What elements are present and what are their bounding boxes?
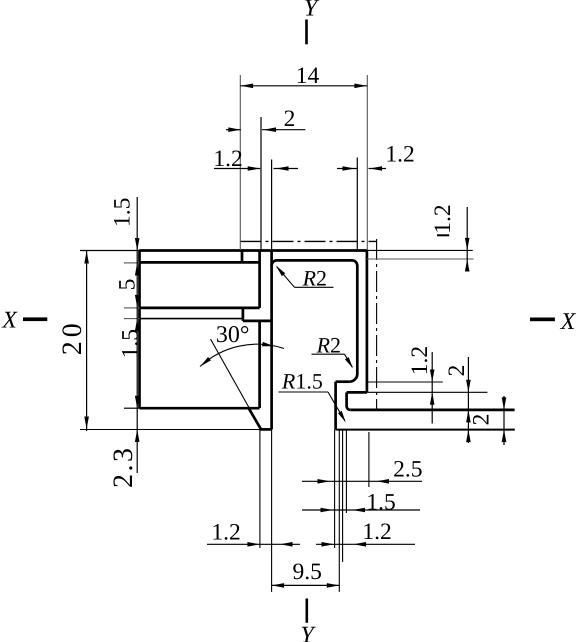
ext line y=250.5 left (top face ext): [80, 250, 140, 252]
radius label R2 lower underline: [312, 353, 345, 355]
axis label X left: [1, 308, 18, 334]
dim label 1.2 bottom-left: [211, 520, 240, 546]
profile: shelf bottom edge left part (y=318.6): [140, 318, 243, 320]
dim 9.5 arrow left-pointing (tip x=271.6): [272, 583, 285, 588]
dim 9.5 line (y=585.4): [272, 584, 340, 586]
dim 1.5 lower arrow up (tip y=318.6): [135, 319, 140, 332]
dim 2 lower line (x=504.0): [503, 396, 505, 445]
profile: right wall inner face (x=357.3) with R2 lower corner: [349, 265, 357, 382]
dim label 1.2 bottom-right: [362, 519, 391, 545]
ext line x=368.9 down (2.5 right ref): [368, 432, 370, 487]
profile: inner top edge / notch bottom (y=262.4): [140, 261, 260, 264]
dim label 5: [115, 279, 141, 291]
profile: bottom edge of hanging wall and foot (y=429.6): [336, 429, 515, 431]
ext line x=271.6 (web right ext up): [271, 160, 273, 251]
profile: cavity top edge with R2 corners (y=260.4): [272, 260, 358, 265]
svg-text:1.2: 1.2: [213, 146, 242, 172]
dim 1.5 top arrow down (tip y=250.5): [135, 238, 140, 251]
dim label 2 lower: [469, 414, 495, 426]
svg-text:R1.5: R1.5: [281, 368, 323, 393]
dim label 1.5 bottom: [366, 489, 395, 515]
svg-text:1.2: 1.2: [362, 519, 391, 545]
svg-text:1.5: 1.5: [110, 198, 136, 227]
dim 1.2 top-right tail: [369, 168, 387, 170]
radius label R2 lower leader: [345, 354, 353, 367]
dim 2 upper arrow up (tip y=409.9): [466, 410, 471, 423]
ext line y=382.0 right (cavity bottom ext): [367, 381, 443, 383]
profile: hanging wall left face (x=335.6): [334, 382, 337, 430]
dim 2.5 arrow right-pointing: [318, 479, 331, 484]
dim 2 line right tail: [262, 129, 305, 131]
dim 1.2 vert arrow down (tip y=250.4): [465, 238, 470, 251]
dim 9.5 arrow right-pointing (tip x=339.3): [327, 583, 340, 588]
svg-text:20: 20: [57, 319, 88, 355]
profile: top-left notch left wall (x=242): [241, 251, 244, 263]
profile: step edge (y=392.4): [347, 391, 367, 394]
radius label R2 top: [302, 266, 327, 291]
dim 2 lower arrow down (tip y=409.9): [502, 397, 507, 410]
dim 1.2 top-left arrow right-pointing: [248, 166, 261, 171]
profile: top face of flange (y=250.5, x139.5-366.9): [140, 249, 367, 252]
dim 2.5 arrow left-pointing: [377, 479, 390, 484]
ext line y=307.9 left gray: [124, 307, 140, 309]
axis tick Y top: [305, 20, 308, 45]
profile: left outer face (x=139.5): [138, 250, 141, 408]
ext line y=392.3 right (step edge ext): [367, 391, 488, 393]
dim label 1.2 vert top-right: [430, 204, 456, 233]
dim 5 arrow up (tip y=263.0): [135, 263, 140, 276]
radius label R1.5 underline: [279, 391, 329, 393]
ext line x=339.3 down (slot left ext / 9.5 right ref): [338, 430, 340, 592]
svg-text:1.5: 1.5: [366, 489, 395, 515]
dim 1.2 top-left line: [214, 168, 260, 170]
svg-text:X: X: [1, 308, 18, 334]
radius label R2 top arrowhead: [276, 266, 285, 277]
ext line y=429.5 bottom-left long: [80, 429, 260, 431]
profile: 30deg chamfer edge: [248, 408, 260, 429]
dim 2.3 arrow up (tip y=429.5): [135, 430, 140, 443]
svg-text:1.5: 1.5: [118, 329, 144, 358]
profile: web bottom edge (y=429.4): [260, 428, 272, 431]
ext line y=259.0 right gray (flange underside ext): [367, 258, 474, 260]
dim 2 upper line (x=468.4): [467, 357, 469, 443]
svg-text:2: 2: [444, 365, 470, 377]
dim 2 upper arrow down (tip y=392.3): [466, 380, 471, 393]
dim 1.2 bottom-left arrow right-pointing (tip x=259.9): [247, 542, 260, 547]
radius label R2 lower: [316, 333, 341, 358]
centerline: vertical dash-dot (x=376.6): [376, 239, 378, 409]
svg-text:1.2: 1.2: [211, 520, 240, 546]
dim label 1.5 lower-left: [118, 329, 144, 358]
svg-text:2.5: 2.5: [393, 456, 422, 482]
axis label Y bottom: [300, 623, 316, 642]
svg-text:2: 2: [469, 414, 495, 426]
profile: cavity bottom edge (y=381.7): [336, 380, 350, 383]
svg-text:5: 5: [115, 279, 141, 291]
dim label 1.2 top-right: [385, 142, 414, 168]
dim 2 arrow (tip at x=240.8 pointing right): [228, 127, 241, 132]
svg-text:1.2: 1.2: [407, 346, 433, 375]
dim 5 arrow down (tip y=307.9): [135, 295, 140, 308]
dim 1.5 bottom line (y=510): [302, 509, 420, 511]
ext line x=367.3 (right end of 14): [366, 75, 368, 250]
dim 1.2 top-left arrow left-pointing: [276, 166, 289, 171]
angle 30deg thin extension line: [211, 339, 250, 409]
profile: slot left wall (x=242.9): [242, 308, 245, 321]
svg-text:14: 14: [296, 63, 320, 89]
dim 20 arrow down (tip y=429.5): [84, 417, 89, 430]
dim 2.5 line (y=481.3): [302, 480, 422, 482]
axis tick X right: [530, 318, 555, 322]
ext line x=334.6 down (hanging wall left ext): [334, 430, 336, 548]
radius label R2 top underline: [295, 286, 334, 288]
dim 2 arrow (tip at x=262 pointing left): [264, 127, 277, 132]
dim label 9.5: [293, 559, 322, 585]
dim 1.2 vert line (x=467.2): [466, 207, 468, 271]
dim 1.2 right line (x=432.2): [431, 352, 433, 424]
ext line y=318.6 left gray: [124, 318, 140, 320]
radius label R1.5: [281, 368, 323, 393]
profile: step face (x=346.6) with R1.5 fillet: [347, 392, 351, 410]
radius label R1.5 arrowhead: [338, 411, 346, 423]
dim 2 lower arrow up (tip y=429.6): [502, 430, 507, 443]
dim label 1.2 top-left: [213, 146, 242, 172]
profile: right wall outer face (x=366.9): [366, 250, 369, 393]
ext line y=250.4 right (top face ext): [367, 249, 473, 251]
dim label 2.5: [393, 456, 422, 482]
ext line x=357.3 (wall inner ext up): [356, 158, 358, 251]
dim 20 arrow up (tip y=250.5): [84, 251, 89, 264]
ext line y=408.2 left: [124, 407, 140, 409]
svg-text:X: X: [560, 309, 577, 335]
dim 1.2 top-right arrow left-pointing: [370, 166, 383, 171]
dim 1.2 right arrow up (tip y=392.3): [430, 392, 435, 405]
dim 1.5 bottom arrow right-pointing: [321, 508, 334, 513]
dim 14 line (y=85.8): [240, 85, 367, 87]
ext line y=262.9 left gray: [124, 262, 140, 264]
angle 30deg arc arrow right end (at web): [262, 342, 274, 346]
dim 1.2 bottom-left arrow left-pointing: [280, 542, 293, 547]
dim 1.2 right arrow down (tip y=382.0): [430, 370, 435, 383]
dim 2 upper extra arrow up (tip y=429.6): [466, 430, 471, 443]
dim 2.3 arrow down (tip y=408.2): [135, 396, 140, 409]
profile: foot top edge (y=409.9): [350, 409, 514, 412]
axis label Y top: [304, 0, 320, 22]
dim 1.2 bottom-right arrow right-pointing: [322, 542, 335, 547]
svg-text:30°: 30°: [216, 322, 250, 348]
profile: web left face lower (x=260.4): [258, 321, 261, 408]
dim 1.2 bottom-right arrow left-pointing: [354, 542, 367, 547]
centerline: floating dash right (y=235.3): [437, 234, 449, 236]
centerline: horizontal dash-dot (y=241.4): [241, 240, 378, 242]
ext line x=261.0 (web left ext up): [260, 117, 262, 250]
dim line left column (x=137.2): [136, 197, 138, 473]
ext line x=240.3 (left end of 14): [239, 75, 241, 250]
ext line x=259.9 down (web left ext): [259, 430, 261, 549]
profile: slot bottom edge (y=320.9): [243, 320, 272, 323]
ext line x=342.6 down (slot right ext): [342, 430, 344, 562]
dim 1.2 bottom-right line (y=544.3): [316, 543, 415, 545]
profile: left channel bottom edge (y=408.2): [140, 407, 260, 410]
angle 30deg arc: [200, 344, 284, 366]
dim label 1.5 top-left: [110, 198, 136, 227]
dim 2 line left tail: [226, 129, 241, 131]
svg-text:2: 2: [284, 106, 296, 132]
svg-text:9.5: 9.5: [293, 559, 322, 585]
radius label R2 top leader: [277, 267, 295, 288]
dim 14 arrow left: [241, 84, 254, 89]
dim 1.2 top-left tail: [274, 168, 299, 170]
dim 20 line (x=86.6): [86, 250, 88, 431]
axis label X right: [560, 309, 577, 335]
angle 30deg arc arrow left end: [200, 357, 211, 366]
ext line x=271.6 down (web right ext): [271, 430, 273, 592]
angle label 30deg: [216, 322, 250, 348]
dim label 2 upper: [444, 365, 470, 377]
axis tick Y bottom: [306, 599, 309, 623]
dim 1.2 top-right line: [337, 168, 357, 170]
dim label 2.3: [108, 446, 139, 489]
ext line x=346.4 down (step face ext): [345, 430, 347, 513]
dim 1.2 top-right arrow right-pointing: [343, 166, 356, 171]
dim label 2: [284, 106, 296, 132]
svg-text:2.3: 2.3: [108, 446, 139, 489]
profile: shelf top edge (y=307.9): [140, 307, 260, 310]
svg-text:1.2: 1.2: [430, 204, 456, 233]
dim 1.2 bottom-left line (y=544.3): [207, 543, 300, 545]
dim label 1.2 right: [407, 346, 433, 375]
dim 1.2 vert arrow up (tip y=259.0): [465, 259, 470, 272]
dim 1.5 bottom arrow left-pointing: [353, 508, 366, 513]
dim label 14: [296, 63, 320, 89]
axis tick X left: [23, 317, 47, 321]
radius label R1.5 leader: [328, 392, 345, 421]
svg-text:1.2: 1.2: [385, 142, 414, 168]
profile: web left face upper (x=260.4): [258, 251, 261, 308]
profile: web right face (x=271.8): [270, 250, 273, 430]
dim 14 arrow right: [354, 84, 367, 89]
radius label R2 lower arrowhead: [345, 357, 353, 368]
dim label 20: [57, 319, 88, 355]
